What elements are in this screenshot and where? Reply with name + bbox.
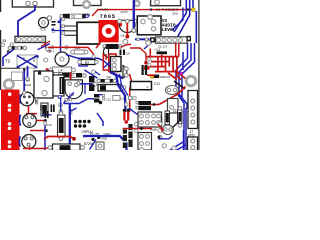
pad J6 [155,0,160,5]
wire black diag P [173,121,180,128]
capacitor C9 bars [120,50,122,56]
transformer T2 windings blue X [17,56,37,68]
wire blue right mid 2 [179,43,191,109]
pad U2-2 [125,19,129,23]
svg-text:R2: R2 [85,61,89,65]
svg-text:*C3: *C3 [40,28,46,32]
capacitor C22 body [74,50,85,54]
op-amp U4 box [77,22,100,44]
svg-text:D1: D1 [72,14,76,18]
pad [46,48,50,52]
wire blue X [104,61,111,68]
capacitor bars bottom 1 [123,130,127,149]
wire red stub2 [105,54,107,60]
wire red U2 down [126,23,128,36]
header box O2 [138,133,152,151]
red net H1 [146,56,179,58]
red net V2 [157,57,159,72]
wire blue right bundle 2 [178,0,190,37]
pad blue T2 b [36,55,38,57]
capacitor C8 bar [94,94,100,103]
wire blue thick bottom [83,136,127,150]
wire blue diag top O [129,108,141,116]
wire stubs to U4 box [65,26,78,35]
svg-text:+9dB: +9dB [150,127,157,131]
relay K2 box [53,75,64,96]
svg-text:R4: R4 [101,87,105,91]
pad left2 [10,43,13,46]
mounting hole right [186,76,196,86]
wire blue thin center [120,74,129,96]
wire red bottom loop [29,147,31,151]
connector J7 box [188,91,198,129]
wire red from D2 [121,45,132,48]
via yellow 2 [150,75,154,79]
box bottom-left small [96,142,104,150]
svg-text:C13: C13 [121,96,127,100]
connector J2a box top-left [12,0,53,7]
wire blue diag left [3,49,14,66]
wire blue arc Q8 [19,115,22,126]
wire red stub [103,53,109,70]
resistor R2 box [81,60,95,65]
mounting hole small [134,1,139,6]
box mid right [168,99,179,114]
pad [92,55,95,58]
wire blue arrow down [23,69,25,93]
pad C3 center [42,21,46,25]
svg-text:R1: R1 [141,102,145,106]
diode D5 body [12,46,23,49]
wire red mid rail [48,47,94,58]
pad U2-1 [118,19,122,23]
svg-text:C6: C6 [34,100,38,104]
red net H2 [151,61,169,63]
svg-text:C17: C17 [159,117,163,123]
header J5 box [15,36,46,42]
pads col P [158,122,162,126]
wire blue branch [70,108,77,112]
wire blue bottom rail [64,99,94,104]
trimmer V2 box [137,16,161,35]
wire blue diag near C14 [144,43,152,50]
wire red Q8 right [37,120,45,122]
wire red stub3 [109,71,118,73]
wire black diag [174,81,185,89]
transistor Q9 [22,135,36,149]
wire blue right bundle 1 [174,0,186,32]
svg-text:7805: 7805 [100,14,116,20]
red net diag [168,73,177,80]
red ring under U5 [109,54,116,72]
svg-text:C8: C8 [121,34,125,38]
connector J6 box top-right [151,0,181,6]
pad square J5 end [42,38,45,42]
resistor R4 box [98,85,121,92]
board edge right [198,0,200,150]
capacitor C10 bars [142,65,144,75]
svg-text:T2: T2 [5,58,11,63]
wire blue arc Q1 [20,95,21,104]
wire blue right low [185,108,187,150]
pad square dark [38,72,41,75]
wire blue right mid 3 [182,43,195,97]
wire red center [130,74,132,112]
wire blue right mid 1 [176,43,188,150]
svg-text:D4: D4 [107,75,111,79]
wire blue col [60,97,62,116]
wire blue Q5 down [64,93,74,104]
wire blue diag bl [90,140,97,150]
svg-text:C12: C12 [106,98,112,102]
junction pad on rail 2 [187,8,189,10]
svg-text:V1: V1 [26,78,30,82]
red net H4 [155,71,177,73]
transistor Q4 outline [123,66,127,79]
wire blue Q5 right [80,83,94,85]
capacitor electrolytic pair red [123,109,126,112]
wire red R3 up [70,73,72,82]
wire red o [123,128,152,130]
capacitor bars [51,105,53,113]
pad below T2 [26,77,30,81]
diode D4 [101,79,114,83]
wire blue C5 net [66,55,104,62]
wire black stub [1,67,21,69]
wire red from U2 pad [96,42,101,48]
red net V5 [168,57,170,67]
red net V1 [149,49,151,57]
wire red mid bottom [44,137,74,140]
svg-text:D2: D2 [109,45,113,49]
svg-text:+9 M1D: +9 M1D [98,8,109,12]
pad square J4 right [187,36,192,42]
wire blue right bundle 3 [192,0,194,8]
capacitor oval P [162,125,173,135]
transformer T2 box [17,55,37,68]
mounting hole top-middle [83,1,90,8]
pad rail a [51,46,54,49]
resistor R3 body [62,73,82,78]
transistor Q1 [20,92,34,106]
svg-text:L4: L4 [59,69,63,73]
pad blue square [58,21,60,23]
wire blue thick input [133,0,135,29]
svg-text:(IN): (IN) [173,12,178,16]
resistor R14 box [53,144,81,151]
wire blue stub bl [97,148,104,150]
pads col [134,122,138,126]
svg-text:6A8C2/6: 6A8C2/6 [160,75,171,79]
wire blue lower [84,70,97,78]
wire blue diag [95,72,100,76]
wire red pair below V2 [176,43,179,57]
wire red diag L [159,87,186,105]
red net H3 [144,66,166,68]
wire blue col2 [44,125,46,151]
svg-text:U3: U3 [86,13,91,17]
wire red lower left [46,69,55,76]
pad blue T2 a [17,66,19,68]
wire blue vertical left of box [60,18,62,52]
capacitor C17 vertical [165,111,170,125]
wire red in Q1 [18,99,20,106]
diamond arrow [140,127,144,131]
pad D1 left [60,15,63,18]
wire blue T2 center down [27,66,29,79]
red net V6 [172,57,174,72]
capacitor C4 bars [52,21,56,23]
pad C3 aux [47,16,51,20]
resistor R16 bar [136,101,138,103]
wire blue stub2 [42,114,52,116]
relay K1 box [34,71,53,98]
wire blue Q5 branch [84,84,86,94]
red net diag2 [177,72,186,79]
capacitor C16 box [131,82,152,90]
pad V2-2 [151,19,155,23]
crystal bars [45,111,47,118]
header J4 pad row [156,37,188,43]
inductor bar [157,51,168,54]
via yellow [191,8,195,12]
transistor Q2 outline [103,46,108,58]
capacitor bars bottom 2 [128,124,132,147]
svg-text:C5 +: C5 + [48,50,55,54]
wire blue horiz bottom [158,136,173,139]
pad V2-1 [141,19,145,23]
vertical caps C19 box [41,103,48,116]
wire red between [30,130,46,132]
wire blue into J4 [135,38,150,40]
inductor L4 box [53,67,72,73]
pad row top [123,39,128,44]
connector J7 box B [188,137,198,151]
red net V3 [161,55,163,68]
capacitor C11 oval [166,86,179,95]
wire blue right bundle 4 [195,11,197,43]
svg-text:(OUT: (OUT [121,10,128,14]
pads bottom P [162,144,166,148]
wire red diag to pad [73,80,77,85]
wire red right of J5 [46,43,51,52]
wire red diag [41,41,50,47]
pad D5 right [23,46,26,49]
wire red to pad [130,48,146,62]
diode D1 body [63,14,86,19]
wire blue arc Q9 [18,136,21,146]
pad J2a-1 [26,1,30,5]
capacitor C7 bars [89,76,95,83]
svg-text:B(A8: B(A8 [24,83,31,87]
svg-text:R14: R14 [61,146,67,150]
red net V7 [177,57,181,80]
pad D1 right [85,14,88,17]
box small left [12,72,23,81]
connector J1 red strip [1,90,20,151]
resistor R17 bar [136,106,138,108]
smd pads right [90,133,92,135]
pad left of V2 [148,15,153,20]
wire blue from J2a [18,5,35,37]
wire blue right diag extra [172,8,183,31]
regulator U2 outline [120,20,136,32]
pad J2a-2 [33,1,37,5]
svg-text:R8: R8 [141,107,145,111]
pad square J4 left [150,37,155,42]
svg-text:B: B [33,59,35,63]
pad V2-3 [151,27,155,31]
mounting hole left [4,80,13,89]
wire blue thick center [116,74,126,112]
wire blue C4 [54,30,65,32]
wire red Q8 top [28,106,30,114]
connector J2b box top-middle [74,0,102,6]
pad U2-3 [133,19,137,23]
pad smd column [62,18,65,21]
pad near C5 [44,58,48,62]
board edge left [0,0,2,90]
transistor Q5 outline [65,80,82,99]
wire blue cross [38,44,51,50]
ic U5 box [111,57,122,72]
red net V4 [165,57,167,72]
svg-text:K5: K5 [15,46,19,50]
pad dark [7,50,10,53]
capacitor C5 body [55,52,69,66]
wire blue thick diag [110,72,123,78]
resistor R18 vertical [58,115,66,137]
pads blue column [58,96,61,99]
wire red horiz L [150,104,159,106]
svg-text:A: A [23,56,25,60]
svg-text:C9: C9 [126,52,130,56]
wire red low [147,74,155,76]
svg-text:C15: C15 [46,123,52,127]
wire blue k bottom [97,113,103,126]
diode D2 body [106,44,119,49]
wire red to +9 line [92,10,98,16]
regulator U2 heat pad [99,20,119,42]
wire red diag P [158,124,162,130]
svg-text:C11: C11 [154,82,160,86]
wire red +9 rail [97,9,192,11]
resistor R19 vertical [178,110,183,124]
via magenta [180,72,183,75]
resistor R5 bar [151,75,159,78]
pad D5 left [8,46,11,49]
transistor Q8 [23,114,37,128]
J1 holes [8,92,12,96]
pad D2 left [103,45,106,48]
wire blue diag bottom [170,142,183,150]
pad blue square C4 [52,29,55,32]
svg-text:C16: C16 [70,110,74,116]
wire blue branch [79,58,88,66]
pad left1 [1,43,4,46]
pads right [148,58,151,61]
pad top right [92,70,96,74]
capacitor C3 body [39,18,49,28]
pad below blue input [132,29,136,33]
pad D2 right [119,45,122,48]
smd pads rows [74,120,77,123]
svg-text:C19: C19 [39,105,43,111]
header box O right [138,112,162,127]
wire blue stub [182,52,184,70]
red net blob [144,66,150,69]
wire blue trunk [69,104,71,150]
junction pad on rail [150,8,152,10]
